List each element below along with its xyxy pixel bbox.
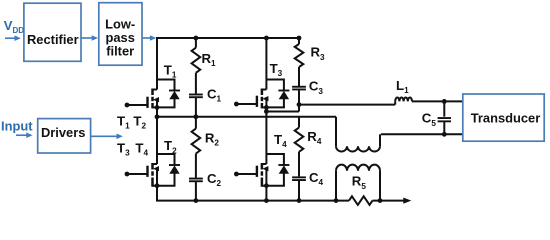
svg-text:Rectifier: Rectifier: [27, 32, 79, 47]
svg-text:Drivers: Drivers: [41, 125, 85, 140]
svg-text:filter: filter: [106, 44, 134, 59]
svg-text:Transducer: Transducer: [471, 111, 541, 126]
svg-text:Input: Input: [1, 118, 33, 133]
